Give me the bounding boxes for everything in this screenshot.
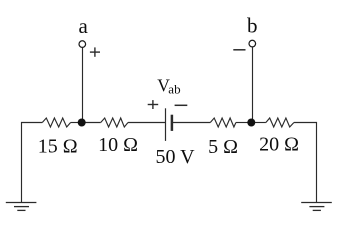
- wire 10Ω to battery: [128, 122, 165, 124]
- wire terminal a stem: [82, 48, 84, 123]
- resistor 5 Ω zigzag: [210, 118, 236, 127]
- polarity - at terminal b: [233, 49, 245, 51]
- wire 15Ω to node a: [71, 122, 82, 124]
- wire node a to 10Ω: [82, 122, 101, 124]
- resistor 20 Ω zigzag: [266, 118, 294, 127]
- svg-text:5 Ω: 5 Ω: [208, 136, 238, 158]
- polarity - at battery: [175, 104, 188, 106]
- battery V1 short plate (-): [171, 115, 174, 131]
- svg-text:50 V: 50 V: [155, 146, 195, 168]
- wire right corner down to ground: [294, 123, 317, 203]
- ground left: [6, 203, 37, 211]
- svg-text:15 Ω: 15 Ω: [38, 136, 78, 158]
- terminal a open circle: [79, 41, 86, 48]
- node a junction dot: [78, 119, 86, 127]
- wire 5Ω to node b: [236, 122, 251, 124]
- polarity + at terminal a: [90, 47, 100, 56]
- node b junction dot: [247, 119, 255, 127]
- svg-text:10 Ω: 10 Ω: [98, 134, 138, 156]
- wire battery to 5Ω: [172, 122, 211, 124]
- svg-text:b: b: [247, 14, 258, 38]
- wire node b to 20Ω: [251, 122, 266, 124]
- ground right: [301, 203, 332, 211]
- svg-text:20 Ω: 20 Ω: [259, 134, 299, 156]
- battery V1 long plate (+): [165, 108, 167, 141]
- wire terminal b stem: [252, 47, 254, 123]
- svg-text:a: a: [79, 14, 89, 38]
- resistor 10 Ω zigzag: [101, 118, 128, 127]
- svg-text:ab: ab: [168, 82, 180, 97]
- polarity + at battery: [148, 100, 159, 109]
- wire left corner down to ground: [22, 123, 43, 203]
- resistor 15 Ω zigzag: [42, 118, 70, 127]
- terminal b open circle: [249, 40, 256, 47]
